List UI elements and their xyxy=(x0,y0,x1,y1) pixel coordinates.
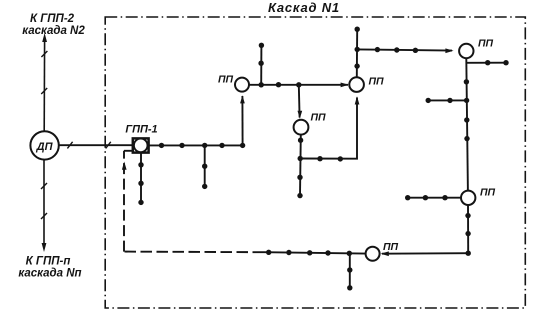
wire: bottom solid y253 xyxy=(264,252,366,253)
node ДП (feeding point circle) xyxy=(30,131,58,159)
arrowhead up into left ПП xyxy=(240,95,245,103)
node ГПП-1 (square with inscribed circle) xyxy=(133,138,149,152)
node ПП bottom-right xyxy=(461,191,475,205)
break mark on lower wire 1 xyxy=(41,183,47,189)
wire: branch left of bottom-right ПП xyxy=(408,197,461,199)
junction dots on y63 branch xyxy=(485,60,509,65)
junction dots on x204 stub xyxy=(202,164,207,190)
wire: stub below ГПП-1 xyxy=(140,153,142,203)
wire: trunk y50 to top-right ПП xyxy=(357,49,452,50)
node ПП left xyxy=(235,78,249,92)
junction dots on ГПП-1 stub xyxy=(138,162,143,205)
arrowhead right into top-right ПП xyxy=(445,48,453,53)
junction dots on main feeder xyxy=(159,143,246,148)
junction dots on drop x468 xyxy=(465,213,471,256)
junction dots on y100 branch xyxy=(426,98,453,103)
svg-text:К ГПП-2: К ГПП-2 xyxy=(30,13,75,25)
junction dots on trunk y85 xyxy=(259,82,302,88)
wire: stub at x204 xyxy=(204,145,206,186)
junction dots on trunk y50 xyxy=(375,47,418,53)
arrowhead down into middle ПП xyxy=(298,111,303,119)
junction dots on bottom line xyxy=(266,250,352,256)
label ПП right xyxy=(368,76,384,88)
break mark on upper wire 1 xyxy=(41,51,47,57)
node ПП top-right xyxy=(459,44,473,58)
junction dots on middle ПП stub xyxy=(297,138,303,199)
wire: spine below top-right ПП xyxy=(466,58,468,190)
junction dots on x350 stub xyxy=(347,267,352,290)
svg-text:каскада N2: каскада N2 xyxy=(22,25,85,37)
wire: riser to left ПП xyxy=(241,96,243,145)
label ПП top-right xyxy=(478,37,494,49)
junction dots on y198 branch xyxy=(405,195,448,200)
junction dots on right spine xyxy=(464,79,470,141)
arrowhead up into right ПП from below xyxy=(355,96,360,104)
wire: stub below bottom line x350 xyxy=(349,253,351,288)
wire: trunk from left ПП to right ПП xyxy=(249,84,348,86)
label "К ГПП-2 каскада N2" xyxy=(22,13,85,37)
node ПП right xyxy=(349,77,364,92)
title label "Каскад N1" xyxy=(268,0,340,15)
wire: ДП to ГПП-1 xyxy=(59,144,133,146)
wire: up-stub above right ПП xyxy=(356,29,358,77)
junction dots on y158 link xyxy=(317,156,343,162)
node ПП bottom xyxy=(366,247,380,261)
label ГПП-1 xyxy=(125,124,157,136)
wire: stub below middle ПП xyxy=(299,135,302,196)
svg-text:ПП: ПП xyxy=(368,76,384,88)
label ПП bottom xyxy=(383,241,399,253)
node ПП middle xyxy=(294,120,309,135)
wire: branch left y100 xyxy=(428,99,467,101)
cascade boundary (dash-dot rectangle) xyxy=(105,17,525,308)
break mark on upper wire 2 xyxy=(41,88,47,94)
wire: drop from trunk to middle ПП xyxy=(298,85,301,118)
wire: reserve jog into ГПП-1 xyxy=(124,150,133,152)
break mark on ДП-ГПП wire 2 xyxy=(106,142,111,149)
svg-text:ГПП-1: ГПП-1 xyxy=(125,124,157,136)
label ПП middle xyxy=(310,112,326,124)
svg-text:ПП: ПП xyxy=(383,241,399,253)
arrowhead up (to ГПП-2) xyxy=(42,33,47,42)
svg-text:ПП: ПП xyxy=(310,112,326,124)
arrowhead up on reserve riser xyxy=(122,162,127,170)
svg-text:ПП: ПП xyxy=(478,37,494,49)
break mark on lower wire 2 xyxy=(41,213,47,219)
wire: reserve dashed riser x124 xyxy=(123,151,125,252)
arrowhead down (to ГПП-п) xyxy=(42,243,47,252)
svg-text:ДП: ДП xyxy=(36,141,54,153)
break mark on ДП-ГПП wire 1 xyxy=(67,142,72,149)
wire: main feeder from ГПП-1 xyxy=(149,144,243,146)
junction dots on x261 stub xyxy=(258,43,264,66)
junction dots on x357 up-stub xyxy=(354,27,360,69)
label ПП left xyxy=(218,74,234,86)
wire: ДП up to cascade N2 xyxy=(43,40,45,131)
arrowhead right into right ПП xyxy=(341,83,349,88)
arrowhead left into bottom ПП xyxy=(381,251,389,256)
svg-text:ПП: ПП xyxy=(480,187,496,199)
svg-text:ПП: ПП xyxy=(218,74,234,86)
wire: up-stub at x261 xyxy=(260,45,262,85)
wire: ДП down to cascade Nп xyxy=(43,160,45,245)
wire: drop below bottom-right ПП xyxy=(467,205,469,253)
wire: branch right y63 xyxy=(466,62,506,64)
label ПП bottom-right xyxy=(480,187,496,199)
svg-text:каскада Nп: каскада Nп xyxy=(18,268,81,280)
svg-text:Каскад N1: Каскад N1 xyxy=(268,0,340,15)
label "К ГПП-п каскада Nп" xyxy=(18,256,81,280)
wire: bottom link y253 to bottom ПП xyxy=(382,252,468,255)
wire: reserve dashed bottom run xyxy=(124,251,264,254)
svg-text:К ГПП-п: К ГПП-п xyxy=(26,256,71,268)
wire: link y158 to riser x357 xyxy=(300,98,357,159)
